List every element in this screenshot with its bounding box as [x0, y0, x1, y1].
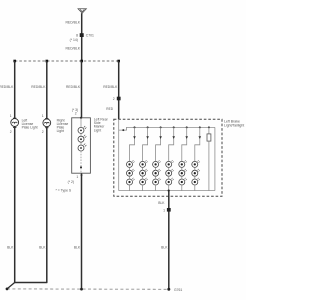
exit junction dot on bottom bus	[168, 190, 170, 192]
LED D32 taillight	[153, 169, 161, 176]
svg-text:G761: G761	[174, 288, 182, 292]
ground splice dot wire3	[80, 288, 83, 291]
svg-text:C701: C701	[86, 33, 94, 37]
connector pin 2 on wire4	[106, 97, 120, 111]
svg-text:RED: RED	[106, 107, 113, 111]
left rear side marker light box	[72, 117, 109, 174]
svg-text:BLK: BLK	[74, 246, 81, 250]
bulb L2 right license plate light	[42, 114, 69, 134]
LED D21 taillight	[140, 160, 148, 167]
wire marker light to ground splice BLK	[81, 174, 83, 290]
wire branch 1 (left license) RED/BLK	[14, 61, 16, 119]
svg-text:BLK: BLK	[161, 246, 168, 250]
splice bus (dashed)	[15, 60, 119, 62]
wire branch 4 (brake/taillight) RED/BLK	[118, 61, 120, 119]
chain polarity arrows	[133, 136, 201, 139]
LED D22 taillight	[140, 169, 148, 176]
svg-text:1: 1	[42, 114, 44, 118]
ground point G761	[167, 288, 182, 292]
wire feed RED/BLK from arrow to splice	[81, 13, 83, 61]
LED D51 taillight	[179, 160, 187, 167]
marker internal wire	[80, 118, 82, 174]
svg-text:2: 2	[42, 130, 44, 134]
svg-text:RED/BLK: RED/BLK	[31, 85, 46, 89]
wire left license down BLK	[15, 126, 47, 282]
marker LED D2	[78, 135, 86, 142]
ground splice dot left	[6, 288, 9, 291]
svg-text:RED/BLK: RED/BLK	[65, 20, 80, 24]
LED chain drops	[130, 127, 200, 161]
wire branch 2 (right license) RED/BLK	[46, 61, 48, 119]
LED D23 taillight	[140, 178, 148, 185]
inner box bottom bus	[119, 190, 215, 192]
svg-text:RED/BLK: RED/BLK	[66, 85, 81, 89]
LED D42 taillight	[166, 169, 174, 176]
LED D62 taillight	[192, 169, 200, 176]
svg-text:1: 1	[163, 208, 165, 212]
wire branch 3 (marker light) RED/BLK	[81, 61, 83, 118]
marker exit arrowhead	[80, 173, 83, 175]
marker internal junction dot	[80, 166, 82, 168]
svg-text:BLK: BLK	[39, 246, 46, 250]
svg-text:2: 2	[10, 130, 12, 134]
svg-text:BLK: BLK	[7, 246, 14, 250]
LED column links	[130, 167, 195, 190]
svg-text:RED/BLK: RED/BLK	[0, 85, 14, 89]
LED D11 taillight	[127, 160, 135, 167]
bulb L1 left license plate light	[10, 114, 38, 134]
LED D13 taillight	[127, 178, 135, 185]
outer dashed box: left brake light/taillight	[114, 119, 244, 196]
LED D41 taillight	[166, 160, 174, 167]
LED D31 taillight	[153, 160, 161, 167]
svg-text:1: 1	[76, 175, 78, 179]
svg-text:2: 2	[75, 112, 77, 116]
page-link arrow (power feed from taillight relay)	[78, 9, 86, 14]
svg-text:Plate Light: Plate Light	[22, 126, 38, 130]
LED D12 taillight	[127, 169, 135, 176]
LED D61 taillight	[192, 160, 200, 167]
connector pin 1 on ground wire	[163, 208, 171, 212]
LED D33 taillight	[153, 178, 161, 185]
svg-text:* = Type S: * = Type S	[56, 189, 72, 193]
connector C701 pin 8	[70, 33, 94, 42]
bus junction dots	[122, 126, 210, 131]
svg-text:8: 8	[76, 33, 78, 37]
svg-text:(* 14): (* 14)	[70, 38, 78, 42]
svg-text:(* 2): (* 2)	[68, 180, 74, 184]
inner assembly wiring: entry + left edge	[118, 119, 120, 190]
LED D53 taillight	[179, 178, 187, 185]
top bus with left jog	[119, 127, 215, 130]
marker LED D3	[78, 144, 86, 151]
inner box right edge	[214, 127, 216, 190]
svg-text:Light/Taillight: Light/Taillight	[224, 124, 244, 128]
svg-text:2: 2	[113, 97, 115, 101]
svg-text:1: 1	[10, 114, 12, 118]
marker LED D1	[78, 126, 86, 133]
LED D43 taillight	[166, 178, 174, 185]
ground run dashed to G761	[7, 288, 169, 290]
ground wire exit BLK	[168, 191, 170, 290]
svg-text:Light: Light	[57, 129, 64, 133]
svg-text:Light: Light	[94, 128, 101, 132]
svg-text:RED/BLK: RED/BLK	[103, 85, 118, 89]
wire joint diagonal to ground splice	[7, 283, 15, 289]
LED D52 taillight	[179, 169, 187, 176]
LED D63 taillight	[192, 178, 200, 185]
resistor R1	[207, 127, 211, 190]
splice junction squares	[13, 60, 120, 63]
svg-text:RED/BLK: RED/BLK	[65, 46, 80, 50]
svg-text:BLK: BLK	[158, 201, 165, 205]
